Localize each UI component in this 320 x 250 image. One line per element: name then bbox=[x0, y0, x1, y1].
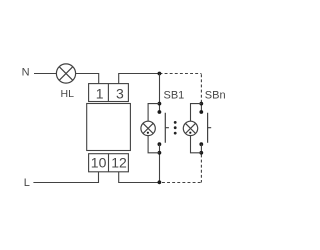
svg-text:SB1: SB1 bbox=[164, 89, 185, 101]
SB1 lamp inner dot bbox=[147, 132, 149, 134]
wire SBn lower dashed to bottom bus bbox=[160, 155, 202, 183]
wire N to lamp HL bbox=[34, 73, 56, 75]
pushbutton SB1 upper lead bbox=[159, 74, 161, 113]
lamp HL bbox=[56, 64, 75, 83]
SB1 contact bridge and actuator bbox=[165, 113, 169, 143]
node junction bottom bus / SB1 bbox=[158, 180, 162, 184]
svg-text:L: L bbox=[24, 177, 30, 189]
wire terminal 12 to bottom bus bbox=[119, 172, 160, 183]
SBn contact bridge and actuator bbox=[208, 113, 212, 143]
wire top bus dashed to SBn bbox=[160, 74, 202, 100]
lamp of SB1 bbox=[141, 121, 155, 135]
ellipsis more units bbox=[174, 121, 177, 135]
SB1 contact dot upper bbox=[158, 110, 162, 114]
device body bbox=[87, 104, 131, 151]
svg-text:SBn: SBn bbox=[205, 89, 226, 101]
SBn lamp inner dot bbox=[189, 132, 191, 134]
pushbutton SBn lower lead bbox=[200, 144, 202, 153]
pushbutton SBn upper lead bbox=[200, 100, 202, 112]
svg-text:N: N bbox=[22, 67, 30, 79]
wire SBn lamp loop top bbox=[191, 104, 202, 121]
node SBn lamp tap upper bbox=[199, 102, 203, 106]
lamp of SBn bbox=[183, 121, 197, 135]
wire SBn lamp loop bottom bbox=[191, 136, 202, 153]
SBn contact dot upper bbox=[199, 110, 203, 114]
wire lamp HL to terminal 1 bbox=[75, 74, 99, 84]
SB1 contact dot lower bbox=[158, 142, 162, 146]
wire terminal 3 to top bus bbox=[119, 74, 160, 84]
wire SB1 lamp loop bottom bbox=[148, 136, 159, 153]
svg-text:3: 3 bbox=[116, 86, 124, 102]
node junction top bus / SB1 bbox=[158, 72, 162, 76]
svg-text:HL: HL bbox=[61, 88, 75, 100]
node SBn lamp tap lower bbox=[199, 151, 203, 155]
pushbutton SB1 lower lead bbox=[159, 144, 161, 182]
wire L to terminal 10 bbox=[33, 172, 98, 183]
node SB1 lamp tap upper bbox=[158, 102, 162, 106]
terminal block bottom bbox=[89, 154, 129, 172]
svg-text:12: 12 bbox=[111, 155, 127, 171]
wire SB1 lamp loop top bbox=[148, 104, 159, 121]
svg-text:1: 1 bbox=[96, 86, 104, 102]
SBn contact dot lower bbox=[199, 142, 203, 146]
terminal block top bbox=[89, 84, 129, 102]
node SB1 lamp tap lower bbox=[158, 151, 162, 155]
svg-text:10: 10 bbox=[91, 155, 107, 171]
